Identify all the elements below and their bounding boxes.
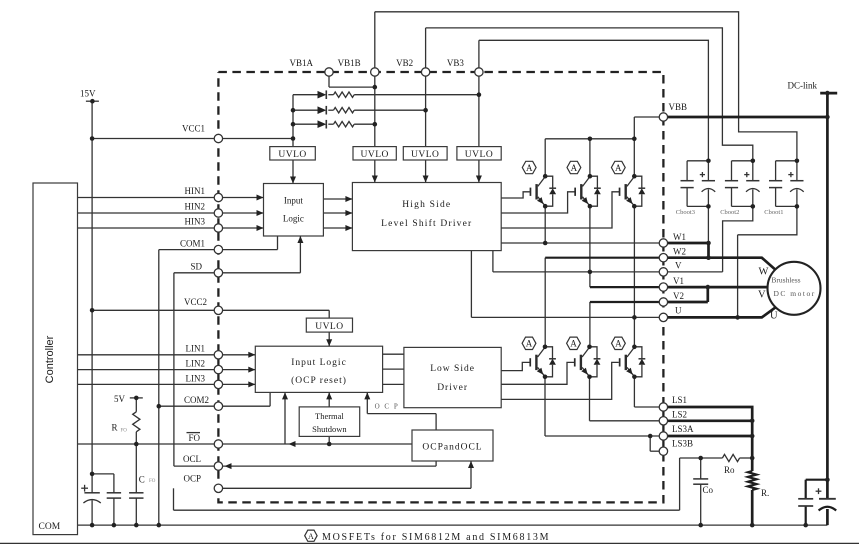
svg-text:V2: V2 xyxy=(673,291,684,301)
svg-text:LIN1: LIN1 xyxy=(186,344,206,354)
svg-text:A: A xyxy=(615,163,622,173)
svg-text:Driver: Driver xyxy=(437,383,468,393)
svg-text:DC motor: DC motor xyxy=(774,289,816,298)
svg-text:COM2: COM2 xyxy=(184,395,209,405)
svg-text:VB3: VB3 xyxy=(447,58,465,68)
svg-text:FO: FO xyxy=(121,429,128,434)
svg-text:C: C xyxy=(139,474,145,484)
svg-text:V: V xyxy=(675,261,682,271)
svg-text:Level Shift Driver: Level Shift Driver xyxy=(381,218,472,229)
svg-text:Logic: Logic xyxy=(283,214,304,224)
svg-text:OCL: OCL xyxy=(183,454,201,464)
svg-text:O C P: O C P xyxy=(375,403,400,411)
svg-text:VB2: VB2 xyxy=(396,58,413,68)
svg-text:FO: FO xyxy=(149,479,156,484)
svg-text:U: U xyxy=(675,306,682,316)
svg-text:Cboot3: Cboot3 xyxy=(676,209,695,216)
svg-text:W: W xyxy=(759,267,769,278)
svg-text:Controller: Controller xyxy=(44,335,56,383)
svg-text:HIN3: HIN3 xyxy=(185,217,206,227)
svg-text:COM: COM xyxy=(39,522,61,532)
svg-text:Brushless: Brushless xyxy=(771,276,800,285)
svg-text:High Side: High Side xyxy=(402,200,451,210)
svg-text:Cboot1: Cboot1 xyxy=(764,209,783,216)
svg-text:VCC1: VCC1 xyxy=(182,124,205,134)
svg-text:V1: V1 xyxy=(673,276,684,286)
svg-text:UVLO: UVLO xyxy=(315,322,343,332)
svg-text:VB1B: VB1B xyxy=(338,58,361,68)
svg-text:Co: Co xyxy=(703,485,714,495)
svg-text:Shutdown: Shutdown xyxy=(312,424,347,434)
svg-text:LS3A: LS3A xyxy=(672,424,694,434)
svg-text:W2: W2 xyxy=(673,247,686,257)
svg-text:LIN2: LIN2 xyxy=(186,359,206,369)
svg-text:A: A xyxy=(308,532,314,541)
svg-text:UVLO: UVLO xyxy=(411,150,439,160)
svg-text:Cboot2: Cboot2 xyxy=(720,209,739,216)
svg-text:U: U xyxy=(770,311,778,322)
svg-text:V: V xyxy=(758,290,766,301)
svg-text:FO: FO xyxy=(188,433,200,443)
svg-text:Input Logic: Input Logic xyxy=(291,358,347,368)
svg-text:Thermal: Thermal xyxy=(315,411,344,421)
svg-text:A: A xyxy=(570,339,577,349)
svg-text:(OCP reset): (OCP reset) xyxy=(291,375,347,386)
svg-text:UVLO: UVLO xyxy=(465,150,493,160)
svg-text:W1: W1 xyxy=(673,232,686,242)
svg-text:A: A xyxy=(526,339,533,349)
svg-text:Low Side: Low Side xyxy=(430,364,475,374)
svg-text:LS2: LS2 xyxy=(672,410,687,420)
svg-text:A: A xyxy=(615,339,622,349)
svg-text:LS3B: LS3B xyxy=(672,439,693,449)
svg-text:15V: 15V xyxy=(80,89,96,99)
svg-text:UVLO: UVLO xyxy=(361,150,389,160)
svg-text:A: A xyxy=(526,163,533,173)
svg-text:A: A xyxy=(571,163,578,173)
svg-text:UVLO: UVLO xyxy=(278,150,306,160)
svg-text:VB1A: VB1A xyxy=(289,58,313,68)
svg-text:LIN3: LIN3 xyxy=(186,374,206,384)
svg-text:COM1: COM1 xyxy=(180,239,205,249)
svg-text:HIN1: HIN1 xyxy=(185,186,206,196)
svg-text:Input: Input xyxy=(284,196,303,206)
svg-text:5V: 5V xyxy=(114,394,126,404)
svg-text:LS1: LS1 xyxy=(672,395,687,405)
svg-text:SD: SD xyxy=(190,262,202,272)
svg-text:R.: R. xyxy=(761,488,769,498)
svg-text:OCP: OCP xyxy=(183,474,201,484)
svg-text:R: R xyxy=(112,423,118,433)
svg-text:VCC2: VCC2 xyxy=(184,297,207,307)
svg-text:Ro: Ro xyxy=(724,465,735,475)
svg-text:DC-link: DC-link xyxy=(788,81,818,91)
svg-text:MOSFETs for SIM6812M and SIM68: MOSFETs for SIM6812M and SIM6813M xyxy=(322,532,550,543)
svg-text:HIN2: HIN2 xyxy=(185,202,206,212)
svg-text:VBB: VBB xyxy=(669,102,688,112)
svg-text:OCPandOCL: OCPandOCL xyxy=(422,443,482,453)
